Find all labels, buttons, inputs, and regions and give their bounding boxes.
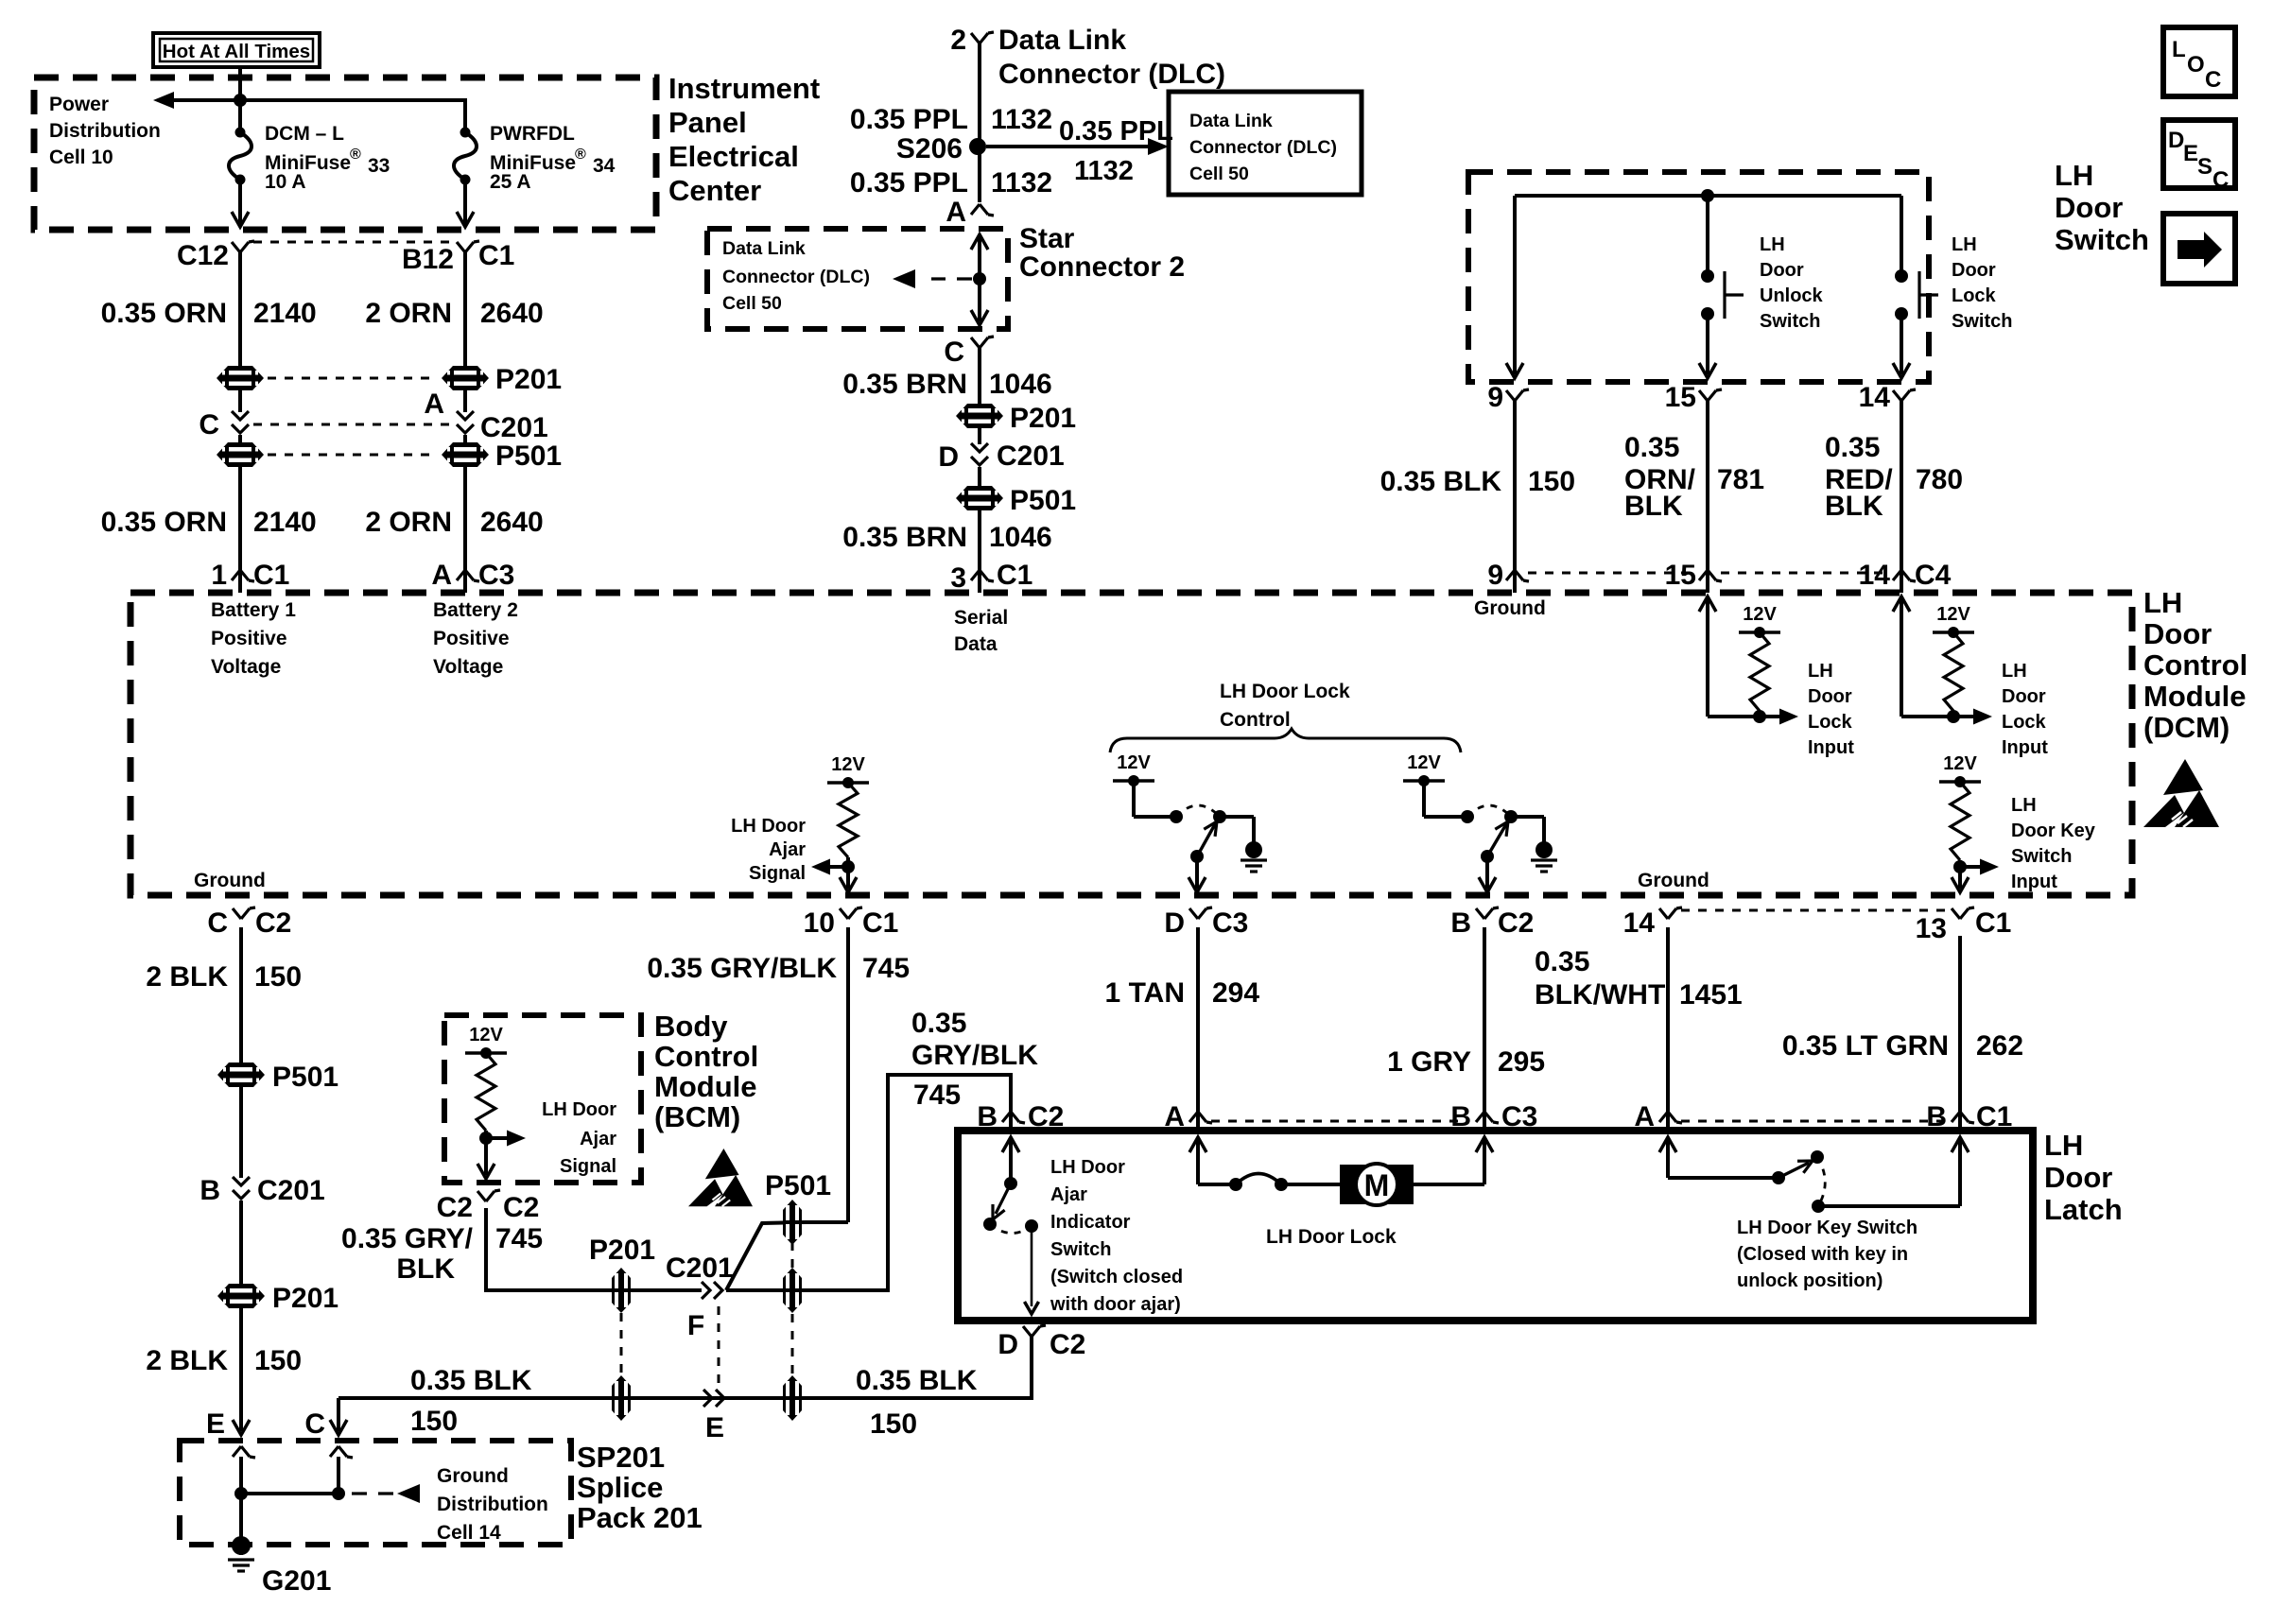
svg-text:LH: LH [2011,795,2037,816]
connector link P501 triple (dashed) [791,1242,794,1375]
svg-text:A: A [431,560,452,591]
label: PWRFDL MiniFuse 34 25 A [490,123,616,193]
svg-text:Cell 10: Cell 10 [49,147,113,168]
svg-text:Serial: Serial [954,607,1008,629]
svg-text:Connector (DLC): Connector (DLC) [722,267,870,287]
svg-text:LH Door Lock: LH Door Lock [1266,1226,1397,1248]
module box: Body Control Module BCM (dashed) [444,1015,641,1183]
svg-text:9: 9 [1487,560,1503,591]
svg-text:0.35 BLK: 0.35 BLK [410,1365,532,1396]
label: 0.35 PPL 1132 (upper) [850,104,1052,135]
svg-text:0.35 ORN: 0.35 ORN [101,298,227,329]
svg-text:Pack 201: Pack 201 [577,1501,703,1534]
svg-text:®: ® [350,147,361,163]
svg-text:Input: Input [1808,737,1854,758]
svg-text:P501: P501 [1010,485,1076,516]
svg-text:0.35 PPL: 0.35 PPL [850,167,968,199]
svg-text:C201: C201 [480,412,548,443]
wire: 0.35 LT GRN 262 [1958,936,1962,1109]
module box: SP201 Splice Pack 201 (dashed) [180,1441,571,1545]
connector link 14-13 (dashed) [1681,909,1945,912]
svg-text:Voltage: Voltage [211,656,281,678]
svg-text:Switch: Switch [1050,1239,1111,1260]
fuse F33: DCM-L MiniFuse 33 10 A [229,128,252,185]
connector star pin A [946,197,994,228]
label: 0.35 BRN 1046 (lower) [842,522,1051,553]
svg-text:14: 14 [1623,907,1656,939]
svg-text:10 A: 10 A [265,171,306,193]
label: LH Door Latch [2044,1129,2123,1226]
svg-text:12V: 12V [1407,752,1441,773]
module box: LH Door Control Module DCM (dashed) [130,593,2132,895]
svg-text:0.35 PPL: 0.35 PPL [850,104,968,135]
connector C1 pin B (latch) [1926,1101,2012,1132]
wire: 1 TAN 294 [1196,927,1200,1109]
svg-text:LH: LH [2044,1129,2083,1162]
wire: 0.35 BRN 1046 (upper) [978,348,981,405]
wire: S206 to DLC cell 50 (arrow right) [986,116,1173,186]
svg-text:P501: P501 [495,441,562,472]
symbol: ESD caution (DCM) [2143,759,2219,827]
svg-text:BLK/WHT: BLK/WHT [1535,979,1665,1011]
label: 0.35 GRY/BLK 745 (BCM) [341,1223,543,1285]
svg-text:D: D [938,441,959,473]
icon box: DESC [2163,120,2235,193]
svg-text:C2: C2 [1050,1329,1085,1360]
label: 0.35 LT GRN 262 [1782,1030,2023,1062]
svg-text:34: 34 [593,155,616,177]
wire: 745 to pin 10 [805,1220,848,1224]
connector pin 14 (switch) [1859,382,1916,413]
label: 2 BLK 150 [146,961,302,993]
svg-text:Door: Door [2143,617,2212,650]
wire: 2 BLK 150 (lower) [239,1308,243,1431]
label: Data Link Connector (DLC) [998,25,1225,90]
svg-text:BLK: BLK [1825,491,1883,522]
svg-text:0.35: 0.35 [1535,946,1589,977]
fuse F34: PWRFDL MiniFuse 34 25 A [454,128,477,185]
svg-text:0.35: 0.35 [911,1008,966,1039]
svg-text:2 BLK: 2 BLK [146,1345,228,1376]
svg-text:15: 15 [1665,382,1696,413]
label: LH Door Lock Input (pin 14) [2002,661,2048,758]
svg-text:Cell 50: Cell 50 [1189,164,1249,184]
svg-text:781: 781 [1717,464,1764,495]
svg-text:Switch: Switch [2055,223,2149,256]
wire: 0.35 ORN/BLK 781 [1706,401,1709,567]
svg-text:G201: G201 [262,1565,331,1597]
svg-text:P201: P201 [272,1283,338,1314]
junction: bus tap [1701,189,1714,202]
svg-text:12V: 12V [1117,752,1151,773]
connector P501 on 745 upper [765,1170,831,1245]
wire: 0.35 BLK 150 [1513,401,1517,567]
svg-text:Ground: Ground [194,870,266,891]
connector link C201 (dashed) [253,423,452,426]
note: Data Link Connector (DLC) Cell 50 (left) [722,238,870,314]
svg-text:C3: C3 [478,560,514,591]
svg-text:LH Door: LH Door [731,816,806,837]
svg-text:10: 10 [804,907,835,939]
label: 0.35 GRY/BLK 745 (pin 10) [647,953,910,984]
svg-text:0.35 ORN: 0.35 ORN [101,507,227,538]
svg-text:Door: Door [1952,260,1996,281]
switch: door lock control (pin D C3) [1113,752,1267,892]
connector pin 9 (switch) [1487,382,1529,413]
wire: to Ground Distribution (dashed, arrow left) [352,1484,424,1503]
connector P501 on BLK run [783,1375,802,1421]
svg-text:(Switch closed: (Switch closed [1050,1267,1183,1287]
wire: splice to G201 [239,1494,243,1538]
junction: splice right [332,1487,345,1500]
wire: 0.35 RED/BLK 780 [1900,401,1903,567]
connector link A-B latch right (dashed) [1681,1120,1943,1123]
svg-text:Data: Data [954,633,998,655]
svg-text:C12: C12 [177,240,229,271]
svg-text:C3: C3 [1212,907,1248,939]
svg-text:Signal: Signal [560,1156,616,1177]
svg-text:Data Link: Data Link [998,25,1126,56]
connector pin 9 (DCM C4) [1487,560,1529,593]
svg-text:2 ORN: 2 ORN [365,298,452,329]
wire: 0.35 ORN 2140 (lower) [238,467,242,567]
svg-text:B: B [1450,907,1471,939]
svg-text:Door: Door [2055,191,2123,224]
icon box: arrow [2163,214,2235,284]
wire: 0.35 BLK drop to SP201 [304,1398,347,1440]
svg-text:780: 780 [1916,464,1963,495]
svg-text:Ajar: Ajar [1050,1184,1087,1205]
label: LH Door Ajar Indicator Switch [1050,1157,1183,1315]
svg-text:Positive: Positive [211,628,287,649]
ground G201 [228,1536,331,1597]
connector C12 (IPEC) [177,240,254,271]
svg-text:Instrument: Instrument [668,72,820,105]
connector C2 pin D (latch) [998,1325,1085,1360]
label: LH Door Key Switch Input [2011,795,2096,892]
svg-text:1132: 1132 [1074,156,1134,186]
svg-text:Unlock: Unlock [1760,285,1824,306]
svg-text:0.35 BRN: 0.35 BRN [842,369,967,400]
svg-text:®: ® [575,147,586,163]
svg-text:Star: Star [1019,223,1075,254]
label: 0.35 BLK 150 (right) [856,1365,978,1440]
connector C201 pin F [666,1253,734,1341]
svg-text:LH: LH [1808,661,1833,682]
svg-text:0.35 GRY/: 0.35 GRY/ [341,1223,474,1254]
connector pin C (inside SP201) [330,1446,353,1494]
connector C201 pin B [200,1175,324,1206]
svg-text:15: 15 [1665,560,1696,591]
label: 0.35 RED/BLK 780 [1825,432,1963,522]
connector C201 pin E [703,1390,724,1443]
connector P501 on ORN wire [217,442,264,467]
svg-text:LH: LH [1760,234,1785,255]
svg-text:2640: 2640 [480,507,544,538]
power label box: Hot At All Times [153,33,320,67]
svg-text:C201: C201 [257,1175,325,1206]
svg-text:with door ajar): with door ajar) [1050,1294,1181,1315]
connector P501 on 2 ORN wire [442,441,562,472]
connector DLC pin 2 [950,25,994,56]
svg-text:2 ORN: 2 ORN [365,507,452,538]
wire: 2 ORN 2640 (upper) [463,252,467,367]
wire: 0.35 ORN 2140 (upper) [238,252,242,367]
wire: common to pin 9 [1506,196,1523,378]
label: 1 GRY 295 [1387,1046,1545,1078]
svg-text:12V: 12V [1936,604,1970,625]
motor: LH Door Lock (M) [1340,1164,1414,1205]
label: DCM-L MiniFuse 33 10 A [265,123,390,193]
svg-text:Door: Door [2002,686,2046,707]
connector link P201 (dashed) [268,377,438,380]
svg-text:2140: 2140 [253,507,317,538]
wire segment [239,1201,243,1284]
svg-text:Hot At All Times: Hot At All Times [163,41,310,62]
svg-text:C2: C2 [437,1192,473,1223]
svg-text:Battery 1: Battery 1 [211,599,296,621]
svg-text:2 BLK: 2 BLK [146,961,228,993]
connector link A-B latch left (dashed) [1211,1120,1467,1123]
resistor: LH Door Ajar Signal (BCM) [465,1025,526,1179]
svg-text:LH: LH [2002,661,2027,682]
wire: 0.35 GRY/BLK 745 (pin 10 drop) [846,927,850,1222]
svg-text:745: 745 [862,953,910,984]
label: 0.35 BRN 1046 (upper) [842,369,1051,400]
svg-text:Switch: Switch [2011,846,2072,867]
label: LH Door Lock Switch [1952,234,2012,332]
svg-text:LH Door Key Switch: LH Door Key Switch [1737,1218,1917,1238]
svg-text:Ground: Ground [437,1465,509,1487]
label: LH Door Lock Control [1220,681,1350,731]
svg-text:Control: Control [654,1040,758,1073]
connector C3 pin B (latch) [1450,1101,1537,1132]
wire: 2 ORN 2640 (lower) [463,467,467,567]
connector C1 pin 1 (DCM) [211,560,289,593]
connector link C12-B12 (dashed) [253,241,452,244]
svg-text:12V: 12V [469,1025,503,1045]
connector C1 pin B12 (IPEC) [402,240,514,275]
svg-text:3: 3 [950,562,966,594]
connector C2 pin B (DCM) [1450,907,1534,939]
wire: feed to fuse 34 [240,100,465,132]
svg-text:PWRFDL: PWRFDL [490,123,575,145]
connector link P501 (dashed) [268,454,438,457]
note: Battery 1 Positive Voltage [211,599,296,678]
wire segment [239,1087,243,1178]
svg-text:Door: Door [1760,260,1804,281]
svg-text:Distribution: Distribution [49,120,161,142]
connector C2 pin C (DCM) [207,907,291,939]
label: 1 TAN 294 [1105,977,1260,1009]
wire: 1 GRY 295 [1483,927,1486,1109]
label: LH Door Key Switch [1737,1218,1917,1291]
svg-text:13: 13 [1916,913,1947,944]
label: LH Door Ajar Signal (BCM) [542,1099,616,1177]
resistor: LH Door Key Switch Input pull-up [1939,753,1999,892]
svg-text:SP201: SP201 [577,1441,665,1474]
wire: feed to Power Distribution (arrow left) [153,92,240,109]
connector link 9-15-14 (dashed) [1528,572,1888,575]
svg-text:12V: 12V [831,754,865,775]
svg-text:1132: 1132 [991,104,1052,135]
svg-text:A: A [946,197,966,228]
wire segment [463,390,467,412]
svg-text:LH: LH [2055,159,2093,192]
wire segment [978,428,981,444]
svg-text:1132: 1132 [991,167,1052,199]
svg-text:C201: C201 [666,1253,734,1284]
svg-text:Input: Input [2011,872,2057,892]
symbol: ESD caution (BCM) [688,1149,753,1206]
wire: battery feed from Hot At All Times [238,67,242,132]
wire: fuse 33 output [232,180,249,227]
svg-text:E: E [206,1408,225,1440]
svg-text:Cell 50: Cell 50 [722,293,782,314]
svg-text:C4: C4 [1915,560,1952,591]
connector C3 pin A (DCM) [431,560,514,593]
svg-text:1046: 1046 [989,369,1052,400]
wire: star connector to DLC (dashed, arrow left) [893,269,972,288]
label: LH Door Lock Input (pin 15) [1808,661,1854,758]
svg-text:2140: 2140 [253,298,317,329]
icon box: LOC [2163,27,2235,96]
note: Power Distribution Cell 10 [49,94,161,168]
wire: 0.35 BRN 1046 (lower) [978,510,981,567]
junction: splice left [234,1487,248,1500]
svg-text:S: S [2197,154,2212,180]
junction: feed split [234,94,247,107]
svg-text:unlock position): unlock position) [1737,1270,1883,1291]
note: Battery 2 Positive Voltage [433,599,518,678]
resistor: LH Door Lock Input pull-up (pin 14) [1893,596,1992,725]
svg-text:(DCM): (DCM) [2143,711,2230,744]
svg-text:150: 150 [254,961,302,993]
svg-text:745: 745 [913,1080,961,1111]
svg-text:150: 150 [870,1408,917,1440]
svg-text:0.35: 0.35 [1825,432,1880,463]
resistor: LH Door Ajar Signal pull-up (DCM) [811,754,869,892]
svg-text:2640: 2640 [480,298,544,329]
module box: Data Link Connector (DLC) Cell 50 (solid) [1169,92,1362,195]
wire: 0.35 PPL 1132 (upper) [978,43,981,202]
connector star pin C [944,337,994,368]
label: SP201 Splice Pack 201 [577,1441,703,1534]
wire: serial data through star connector [971,234,988,325]
note: Data Link Connector (DLC) Cell 50 [1189,111,1337,184]
svg-text:Data Link: Data Link [722,238,806,259]
svg-text:E: E [705,1412,724,1443]
svg-text:12V: 12V [1743,604,1777,625]
wire: door switch common bus [1515,194,1901,198]
svg-text:C1: C1 [997,560,1032,591]
switch: door lock control (pin B C2) [1403,752,1557,892]
connector P501 on 745 lower [783,1268,802,1313]
connector C1 pin 3 (DCM) [950,560,1032,594]
connector C1 pin 13 (DCM) [1916,907,2012,944]
label: Body Control Module (BCM) [654,1010,758,1133]
svg-text:C1: C1 [1975,907,2011,939]
svg-text:0.35 GRY/BLK: 0.35 GRY/BLK [647,953,837,984]
connector pin 15 (switch) [1665,382,1722,413]
wire: 0.35 BLK 150 run [338,1337,1032,1398]
wire: contact to motor [1281,1183,1340,1186]
svg-text:25 A: 25 A [490,171,531,193]
connector P501 on BLK wire [217,1062,338,1093]
wire segment [978,467,981,486]
wire: 2 BLK 150 (upper) [239,927,243,1063]
svg-text:Switch: Switch [1760,311,1820,332]
label: 0.35 BLK/WHT 1451 [1535,946,1743,1011]
connector pin 15 (DCM C4) [1665,560,1722,593]
svg-text:150: 150 [1528,466,1575,497]
svg-text:150: 150 [410,1406,458,1437]
svg-text:C: C [199,409,219,441]
svg-text:C2: C2 [255,907,291,939]
connector pin A (latch right) [1634,1101,1682,1132]
svg-text:BLK: BLK [396,1253,455,1285]
svg-text:Door: Door [2044,1161,2112,1194]
label: 2 ORN 2640 [365,298,543,329]
wire: 745 continuation to door latch [726,1075,1011,1290]
svg-text:Ajar: Ajar [580,1129,616,1149]
svg-text:Distribution: Distribution [437,1494,548,1515]
connector P201 on 2 ORN wire [442,364,562,395]
connector link P201 pair (dashed) [620,1313,623,1375]
svg-text:(Closed with key in: (Closed with key in [1737,1244,1908,1265]
switch: LH Door Lock Switch [1893,196,1938,378]
label: 0.35 PPL 1132 (lower) [850,167,1052,199]
svg-text:Cell 14: Cell 14 [437,1522,501,1544]
connector C201 pin A [424,389,547,443]
connector C4 pin 14 (DCM) [1859,560,1952,593]
svg-text:12V: 12V [1943,753,1977,774]
label: LH Door Unlock Switch [1760,234,1824,332]
svg-text:P501: P501 [765,1170,831,1201]
label: 0.35 BLK 150 [1380,466,1575,497]
svg-text:1046: 1046 [989,522,1052,553]
switch: LH Door Ajar Indicator Switch [983,1137,1039,1314]
svg-text:Input: Input [2002,737,2048,758]
wire: 745 from BCM C2 [486,1208,702,1290]
wire segment [238,435,242,442]
svg-text:Indicator: Indicator [1050,1212,1131,1233]
svg-text:C2: C2 [503,1192,539,1223]
label: 0.35 ORN 2140 [101,298,317,329]
svg-text:B12: B12 [402,244,454,275]
svg-text:F: F [687,1310,704,1341]
connector C2 pin B (latch) [977,1101,1064,1132]
svg-text:Connector (DLC): Connector (DLC) [998,59,1225,90]
connector P201 on BLK wire [217,1283,338,1314]
svg-text:Module: Module [654,1070,757,1103]
svg-text:Switch: Switch [1952,311,2012,332]
connector pin E (inside SP201) [233,1446,255,1494]
wire: splice bus [241,1492,338,1495]
svg-text:295: 295 [1498,1046,1545,1078]
svg-text:A: A [424,389,444,420]
label: Instrument Panel Electrical Center [668,72,820,207]
connector P201 on ORN wire [217,366,264,390]
svg-text:Center: Center [668,174,761,207]
wire segment [463,435,467,442]
svg-text:1451: 1451 [1679,979,1743,1011]
label: Star Connector 2 [1019,223,1185,283]
svg-text:P201: P201 [589,1235,655,1266]
svg-text:S206: S206 [896,133,963,164]
svg-text:0.35 BRN: 0.35 BRN [842,522,967,553]
svg-text:Lock: Lock [1952,285,1997,306]
